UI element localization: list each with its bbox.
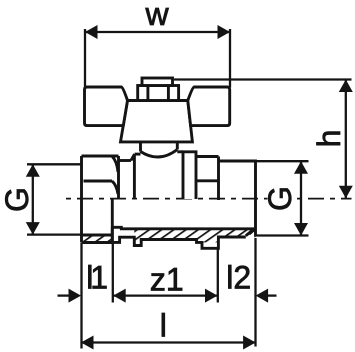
body left port joint: [133, 154, 136, 199]
arrowhead w left: [85, 25, 98, 39]
bottom section band: [112, 227, 254, 248]
svg-text:l: l: [160, 307, 167, 343]
nut right face: [117, 156, 120, 199]
arrowhead l1 outside left: [69, 289, 82, 303]
stem boss right of ball: [183, 152, 196, 199]
dim w line: [85, 31, 230, 33]
arrowhead l right: [243, 336, 256, 350]
stem nut facets: [148, 86, 169, 101]
arrowhead z1 left: [113, 289, 126, 303]
arrowhead l2 outside right: [256, 289, 269, 303]
body shelf chamfer: [131, 154, 135, 160]
arrowhead G left bottom: [26, 222, 40, 235]
arrowhead G right bottom: [294, 223, 308, 236]
chain dim line: [58, 294, 70, 296]
svg-text:l2: l2: [226, 260, 251, 296]
arrowhead l left: [81, 336, 94, 350]
dim h line: [345, 80, 347, 199]
body hex facet line right: [196, 179, 219, 182]
svg-text:l1: l1: [86, 260, 107, 296]
body top mid segment: [177, 150, 183, 153]
dim G right line: [300, 161, 302, 235]
centerline: [66, 198, 352, 200]
arrowhead G right top: [294, 161, 308, 174]
svg-text:w: w: [145, 0, 170, 32]
dim G left line: [32, 164, 34, 234]
nut top edge: [82, 155, 119, 158]
dim G right extensions: [256, 160, 309, 162]
arrowhead z1 right: [205, 289, 218, 303]
wire: [119, 152, 219, 200]
body upper shelf: [135, 153, 141, 156]
nut chamfer arc mid flat: [112, 181, 118, 194]
svg-text:h: h: [311, 130, 347, 148]
dim h extension top: [174, 78, 352, 80]
nut right face below center: [111, 200, 114, 243]
stem nut: [138, 86, 179, 101]
nut chamfer arc top flat: [112, 157, 118, 173]
dim l line: [81, 341, 256, 343]
chain dim extension lines: [80, 243, 82, 349]
nut thread band line: [82, 234, 113, 237]
hatch nut thread band: [83, 236, 112, 242]
stem cap: [142, 78, 173, 86]
union nut left: [82, 156, 119, 243]
nut left face: [80, 156, 83, 243]
svg-text:G: G: [262, 186, 298, 211]
arrowhead h bottom: [339, 186, 353, 199]
svg-text:z1: z1: [150, 262, 184, 298]
svg-text:G: G: [0, 187, 35, 212]
left wing: [85, 87, 128, 126]
body joint vertical: [217, 157, 220, 201]
ball top arc: [141, 150, 178, 158]
right wing: [188, 87, 230, 126]
hatch right chamfer: [250, 230, 255, 234]
arrowhead h top: [339, 80, 353, 93]
body shelf left of neck: [119, 159, 131, 162]
dim w extension lines: [84, 29, 86, 87]
nut facet line: [84, 180, 113, 183]
arrowhead G left top: [26, 164, 40, 177]
body top right segment: [196, 155, 219, 158]
hatch body band: [134, 229, 254, 246]
thread chamfer diagonal right end: [246, 229, 254, 236]
dim G left extensions: [27, 163, 81, 165]
nut bottom edge: [82, 241, 113, 244]
arrowhead w right: [218, 25, 231, 39]
handle hub: [121, 101, 193, 142]
packing neck: [141, 142, 178, 152]
right end piece: [219, 161, 256, 236]
